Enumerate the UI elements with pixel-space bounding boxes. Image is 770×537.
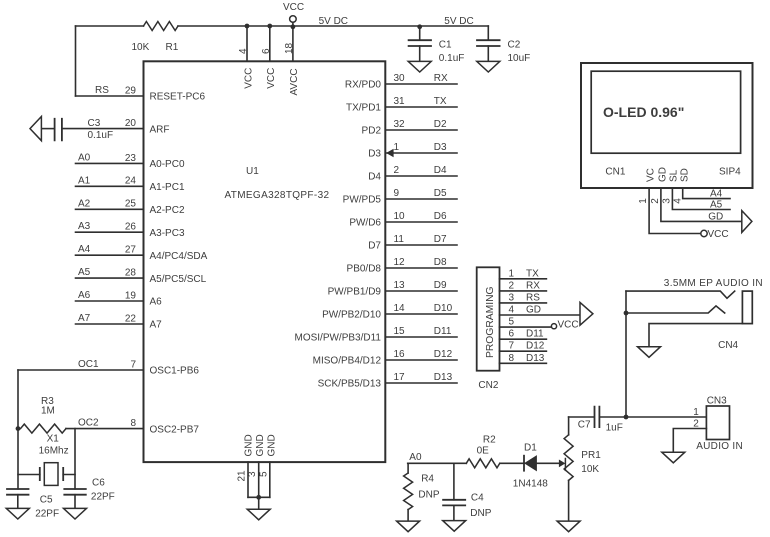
svg-text:AUDIO IN: AUDIO IN	[696, 441, 743, 452]
svg-text:11: 11	[394, 234, 405, 245]
svg-text:4: 4	[238, 48, 249, 54]
svg-text:DNP: DNP	[418, 489, 439, 500]
ground under C4	[443, 521, 466, 532]
svg-text:VC: VC	[645, 168, 656, 182]
svg-text:RX/PD0: RX/PD0	[345, 80, 382, 91]
svg-text:D8: D8	[434, 257, 447, 268]
svg-text:A2: A2	[78, 198, 91, 209]
pin 23 A0-PC0 (left), net A0	[76, 162, 144, 164]
svg-text:A5: A5	[78, 267, 91, 278]
svg-text:A5: A5	[710, 199, 723, 210]
svg-text:ARF: ARF	[150, 124, 170, 135]
svg-text:A3: A3	[78, 221, 91, 232]
pin 26 A3-PC3 (left), net A3	[76, 231, 144, 233]
svg-text:1: 1	[394, 142, 400, 153]
svg-text:D12: D12	[526, 341, 545, 352]
svg-text:GD: GD	[526, 305, 541, 316]
CN2 pin 4 net GD	[500, 314, 581, 316]
pin 10 PW/D6 (right), net D6	[385, 221, 457, 223]
pin 27 A4/PC4/SDA (left), net A4	[76, 254, 144, 256]
svg-text:24: 24	[125, 176, 137, 187]
svg-text:1: 1	[509, 268, 515, 279]
svg-text:1M: 1M	[41, 406, 55, 417]
pin 13 PW/PB1/D9 (right), net D9	[385, 290, 457, 292]
svg-text:SCK/PB5/D13: SCK/PB5/D13	[318, 379, 382, 390]
svg-text:PW/D6: PW/D6	[349, 218, 381, 229]
svg-text:1uF: 1uF	[606, 423, 623, 434]
pins 21,3,5 GND (bottom)	[248, 462, 270, 497]
svg-text:PD2: PD2	[362, 126, 382, 137]
ground under CN4	[638, 347, 661, 358]
svg-text:D1: D1	[524, 443, 537, 454]
svg-text:X1: X1	[47, 434, 60, 445]
svg-text:R1: R1	[166, 42, 179, 53]
ground under PR1	[557, 521, 580, 532]
svg-text:5: 5	[509, 317, 515, 328]
svg-text:2: 2	[650, 198, 661, 204]
svg-text:31: 31	[394, 96, 406, 107]
power VCC symbol	[290, 16, 297, 23]
audio jack CN4 sleeve body	[742, 291, 752, 324]
pin 12 PB0/D8 (right), net D8	[385, 267, 457, 269]
svg-text:A0: A0	[78, 152, 91, 163]
svg-text:A5/PC5/SCL: A5/PC5/SCL	[150, 274, 207, 285]
svg-text:32: 32	[394, 119, 406, 130]
svg-text:GND: GND	[244, 434, 255, 456]
svg-text:U1: U1	[246, 166, 259, 177]
svg-text:CN3: CN3	[707, 396, 727, 407]
resistor R1	[144, 22, 179, 31]
capacitor C6	[64, 489, 86, 495]
svg-text:21: 21	[236, 470, 247, 482]
power VCC at CN1 pin1	[701, 230, 707, 236]
svg-text:3.5MM EP AUDIO IN: 3.5MM EP AUDIO IN	[664, 278, 763, 289]
svg-text:22PF: 22PF	[91, 492, 115, 503]
svg-text:2: 2	[509, 280, 515, 291]
svg-text:RS: RS	[95, 85, 109, 96]
svg-text:C6: C6	[92, 478, 105, 489]
power VCC at CN2 pin5	[551, 324, 556, 329]
svg-text:CN1: CN1	[605, 167, 625, 178]
svg-text:C3: C3	[88, 118, 101, 129]
pin 32 PD2 (right), net D2	[385, 129, 457, 131]
svg-text:D7: D7	[434, 234, 447, 245]
svg-text:ATMEGA328TQPF-32: ATMEGA328TQPF-32	[225, 190, 330, 201]
svg-text:GD: GD	[657, 167, 668, 182]
capacitor C1	[417, 24, 422, 29]
svg-text:GND: GND	[255, 434, 266, 456]
svg-text:D4: D4	[434, 165, 447, 176]
svg-text:AVCC: AVCC	[289, 68, 300, 95]
wire CN1 pin4 net A4	[683, 188, 730, 199]
svg-text:D11: D11	[434, 326, 452, 337]
svg-text:A7: A7	[150, 320, 163, 331]
svg-text:O-LED 0.96": O-LED 0.96"	[603, 104, 684, 120]
svg-text:VCC: VCC	[708, 229, 729, 240]
capacitor C7	[569, 416, 594, 418]
PR1 wiper arrow	[537, 462, 560, 464]
audio jack CN4 ring contact	[626, 306, 725, 313]
svg-text:GD: GD	[708, 212, 723, 223]
wire audio signal vertical	[625, 291, 627, 417]
svg-text:PW/PD5: PW/PD5	[343, 195, 382, 206]
svg-text:0E: 0E	[477, 445, 490, 456]
pin 8 OSC2-PB7 (left), net OC2	[66, 428, 144, 430]
svg-text:D3: D3	[434, 142, 447, 153]
svg-text:RS: RS	[526, 292, 540, 303]
svg-text:A2-PC2: A2-PC2	[150, 205, 185, 216]
IC U1 ATMEGA328TQPF-32 body	[144, 61, 386, 462]
svg-text:25: 25	[125, 199, 137, 210]
ground under C5	[6, 508, 29, 519]
svg-text:D12: D12	[434, 349, 453, 360]
svg-text:7: 7	[509, 341, 515, 352]
ground under C6	[64, 508, 87, 519]
port arrow GD out	[742, 211, 752, 233]
svg-text:A3-PC3: A3-PC3	[150, 228, 185, 239]
pin 19 A6 (left), net A6	[76, 300, 144, 302]
pin 2 D4 (right), net D4	[385, 175, 457, 177]
ground under CN3 pin2	[662, 452, 685, 463]
pin 28 A5/PC5/SCL (left), net A5	[76, 277, 144, 279]
pin 31 TX/PD1 (right), net TX	[385, 106, 457, 108]
junction GND node	[256, 495, 261, 500]
svg-text:3: 3	[247, 471, 258, 477]
svg-text:8: 8	[509, 353, 515, 364]
wire A0 node	[408, 462, 467, 464]
svg-text:6: 6	[509, 329, 515, 340]
display module CN1 outer box	[581, 63, 753, 188]
CN2 pin 1 net TX	[500, 278, 547, 280]
capacitor C2	[487, 26, 489, 40]
connector CN2 PROGRAMING body	[477, 267, 500, 370]
svg-text:A6: A6	[150, 297, 163, 308]
wire CN1 pin1 to VCC	[649, 188, 701, 234]
svg-text:D10: D10	[434, 303, 453, 314]
ground under R4	[397, 521, 420, 532]
svg-text:A4: A4	[710, 189, 723, 200]
svg-text:22: 22	[125, 313, 137, 324]
svg-text:OC2: OC2	[78, 418, 99, 429]
ground under U1	[247, 509, 270, 520]
svg-text:SD: SD	[680, 168, 691, 182]
wire OSC2 branch down	[74, 429, 76, 489]
svg-text:10K: 10K	[581, 464, 599, 475]
svg-text:VCC: VCC	[266, 68, 277, 89]
wire OSC1 vertical	[17, 370, 19, 489]
capacitor C3	[41, 128, 53, 130]
svg-text:12: 12	[394, 257, 406, 268]
svg-text:20: 20	[125, 118, 137, 129]
svg-text:C7: C7	[578, 420, 591, 431]
resistor R4 (DNP)	[407, 463, 409, 473]
svg-text:30: 30	[394, 73, 406, 84]
svg-text:2: 2	[394, 165, 400, 176]
svg-text:OSC1-PB6: OSC1-PB6	[150, 366, 200, 377]
svg-text:10uF: 10uF	[508, 53, 531, 64]
svg-text:GND: GND	[267, 434, 278, 456]
svg-text:VCC: VCC	[243, 68, 254, 89]
pin 14 PW/PB2/D10 (right), net D10	[385, 313, 457, 315]
svg-text:2: 2	[693, 419, 699, 430]
svg-text:A1-PC1: A1-PC1	[150, 182, 185, 193]
pin 15 MOSI/PW/PB3/D11 (right), net D11	[385, 336, 457, 338]
svg-text:29: 29	[125, 85, 137, 96]
svg-text:D13: D13	[526, 353, 545, 364]
CN2 pin 6 net D11	[500, 338, 547, 340]
svg-text:27: 27	[125, 245, 137, 256]
resistor R2	[466, 459, 499, 468]
port arrow CN2 GD out	[580, 302, 593, 325]
crystal X1	[44, 463, 58, 486]
port arrow (C3 input)	[30, 117, 41, 141]
display screen inner box	[591, 71, 740, 153]
svg-text:A4: A4	[78, 244, 91, 255]
svg-text:VCC: VCC	[558, 320, 579, 331]
capacitor C4 (DNP)	[453, 463, 455, 500]
svg-text:R2: R2	[483, 435, 496, 446]
pin 7 OSC1-PB6 (left), net OC1	[18, 369, 144, 371]
svg-text:PB0/D8: PB0/D8	[347, 264, 382, 275]
svg-text:9: 9	[394, 188, 400, 199]
svg-text:OC1: OC1	[78, 359, 99, 370]
potentiometer PR1	[568, 417, 570, 435]
svg-text:8: 8	[130, 418, 136, 429]
pin 20 ARF (left)	[62, 128, 144, 130]
svg-text:5V DC: 5V DC	[319, 16, 348, 27]
junction OSC1/R3 node	[16, 426, 21, 431]
CN3 pin 2	[673, 429, 706, 453]
capacitor C5	[7, 489, 29, 495]
svg-text:D9: D9	[434, 280, 447, 291]
svg-text:DNP: DNP	[470, 508, 491, 519]
wire pin6 drop	[269, 26, 271, 61]
pin 25 A2-PC2 (left), net A2	[76, 208, 144, 210]
pin 29 RESET-PC6 (left), net RS	[76, 95, 144, 97]
svg-text:4: 4	[673, 198, 684, 204]
svg-text:A6: A6	[78, 290, 91, 301]
svg-text:D5: D5	[434, 188, 447, 199]
svg-text:17: 17	[394, 372, 406, 383]
wire jack sleeve to ground	[649, 324, 742, 347]
junction C7/CN3 node	[624, 415, 629, 420]
svg-text:18: 18	[284, 42, 295, 54]
svg-text:RX: RX	[434, 73, 448, 84]
svg-text:7: 7	[130, 359, 136, 370]
svg-text:TX/PD1: TX/PD1	[346, 103, 381, 114]
svg-text:23: 23	[125, 153, 137, 164]
svg-text:3: 3	[509, 292, 515, 303]
svg-text:SL: SL	[668, 169, 679, 182]
svg-text:RX: RX	[526, 280, 540, 291]
CN2 pin 5 net VCC	[500, 326, 552, 328]
svg-text:VCC: VCC	[283, 2, 304, 13]
svg-text:A4/PC4/SDA: A4/PC4/SDA	[150, 251, 208, 262]
pin 22 A7 (left), net A7	[76, 323, 144, 325]
svg-text:22PF: 22PF	[35, 509, 59, 520]
pin 11 D7 (right), net D7	[385, 244, 457, 246]
svg-text:D2: D2	[434, 119, 447, 130]
svg-text:14: 14	[394, 303, 406, 314]
resistor R3	[21, 424, 66, 433]
svg-text:TX: TX	[434, 96, 447, 107]
svg-text:D3: D3	[368, 149, 381, 160]
junction dots on 5V rail	[245, 24, 250, 29]
connector CN3 body	[706, 406, 729, 440]
svg-text:0.1uF: 0.1uF	[88, 130, 114, 141]
ground under C1	[408, 61, 431, 72]
audio jack CN4 tip contact	[626, 291, 735, 298]
wire pin4 drop	[246, 26, 248, 61]
svg-text:PR1: PR1	[581, 450, 601, 461]
svg-text:D6: D6	[434, 211, 447, 222]
svg-text:0.1uF: 0.1uF	[439, 53, 465, 64]
svg-text:10: 10	[394, 211, 406, 222]
svg-text:A7: A7	[78, 313, 91, 324]
svg-text:PW/PB2/D10: PW/PB2/D10	[322, 310, 381, 321]
svg-text:PW/PB1/D9: PW/PB1/D9	[328, 287, 382, 298]
pin 24 A1-PC1 (left), net A1	[76, 185, 144, 187]
svg-text:4: 4	[509, 305, 515, 316]
CN2 pin 3 net RS	[500, 302, 547, 304]
svg-text:CN2: CN2	[478, 380, 498, 391]
svg-text:RESET-PC6: RESET-PC6	[150, 92, 206, 103]
svg-text:D13: D13	[434, 372, 453, 383]
junction jack ring node	[624, 311, 629, 316]
svg-text:1: 1	[638, 198, 649, 204]
svg-text:1N4148: 1N4148	[513, 479, 548, 490]
svg-text:A1: A1	[78, 175, 91, 186]
svg-text:CN4: CN4	[718, 340, 738, 351]
svg-text:SIP4: SIP4	[719, 167, 741, 178]
svg-text:13: 13	[394, 280, 406, 291]
CN2 pin 8 net D13	[500, 362, 547, 364]
arrow into pin 1 D3	[387, 149, 393, 156]
svg-text:C1: C1	[439, 40, 452, 51]
svg-text:16Mhz: 16Mhz	[39, 446, 69, 457]
svg-text:A0: A0	[409, 452, 422, 463]
svg-text:TX: TX	[526, 268, 539, 279]
pin 16 MISO/PB4/D12 (right), net D12	[385, 359, 457, 361]
wire reset pullup vertical	[75, 26, 77, 96]
svg-text:MISO/PB4/D12: MISO/PB4/D12	[313, 356, 382, 367]
CN2 pin 7 net D12	[500, 350, 547, 352]
svg-text:5: 5	[259, 471, 270, 477]
svg-text:3: 3	[662, 198, 673, 204]
svg-text:D11: D11	[526, 329, 544, 340]
wire pin18 drop	[292, 22, 294, 61]
pin 30 RX/PD0 (right), net RX	[385, 83, 457, 85]
ground under C2	[477, 61, 500, 72]
svg-text:1: 1	[693, 407, 699, 418]
svg-text:10K: 10K	[132, 42, 150, 53]
pin 1 D3 (right), net D3	[385, 152, 457, 154]
wire 5V rail top	[76, 25, 489, 27]
svg-text:D7: D7	[368, 241, 381, 252]
diode D1 1N4148	[500, 462, 524, 464]
svg-text:5V DC: 5V DC	[444, 16, 473, 27]
svg-text:A0-PC0: A0-PC0	[150, 159, 185, 170]
svg-text:C4: C4	[471, 492, 484, 503]
svg-text:D4: D4	[368, 172, 381, 183]
svg-text:C2: C2	[508, 40, 521, 51]
svg-text:6: 6	[261, 48, 272, 54]
svg-text:OSC2-PB7: OSC2-PB7	[150, 424, 200, 435]
svg-text:C5: C5	[40, 495, 53, 506]
svg-text:16: 16	[394, 349, 406, 360]
wire CN1 pin2 GD	[661, 188, 742, 221]
svg-text:19: 19	[125, 290, 137, 301]
pin 17 SCK/PB5/D13 (right), net D13	[385, 382, 457, 384]
svg-text:PROGRAMING: PROGRAMING	[485, 286, 496, 358]
svg-text:26: 26	[125, 222, 137, 233]
svg-text:15: 15	[394, 326, 406, 337]
wire CN1 pin3 net A5	[672, 188, 730, 210]
svg-text:MOSI/PW/PB3/D11: MOSI/PW/PB3/D11	[294, 333, 381, 344]
svg-text:R4: R4	[421, 473, 434, 484]
pin 9 PW/PD5 (right), net D5	[385, 198, 457, 200]
svg-text:28: 28	[125, 268, 137, 279]
CN2 pin 2 net RX	[500, 290, 547, 292]
